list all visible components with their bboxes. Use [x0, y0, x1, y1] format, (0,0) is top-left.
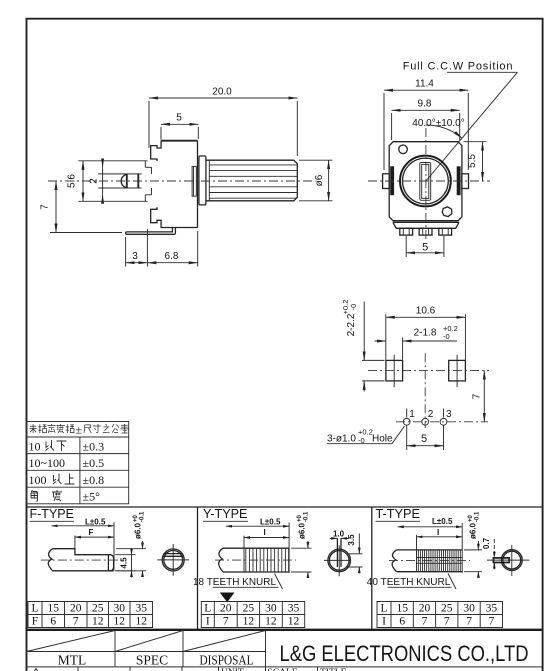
svg-text:7: 7 — [472, 393, 483, 399]
svg-text:-0.1: -0.1 — [475, 511, 481, 522]
svg-text:-0.1: -0.1 — [140, 511, 146, 522]
svg-text:I: I — [437, 528, 439, 537]
svg-text:2-2.2: 2-2.2 — [346, 313, 357, 336]
F dim dia6.0 — [116, 511, 146, 577]
pad centerline — [368, 370, 489, 372]
svg-text:10: 10 — [29, 440, 41, 454]
svg-text:15: 15 — [47, 603, 59, 615]
svg-text:12: 12 — [265, 616, 277, 628]
svg-text:+0: +0 — [133, 514, 139, 522]
svg-text:-0: -0 — [443, 332, 450, 341]
TITLE BLOCK — [27, 630, 543, 671]
right tab — [457, 166, 469, 195]
svg-text:10.6: 10.6 — [416, 306, 436, 317]
dim 5.6 — [67, 161, 84, 202]
svg-text:20.0: 20.0 — [212, 87, 232, 98]
svg-text:18 TEETH KNURL: 18 TEETH KNURL — [193, 576, 276, 588]
svg-text:5.5: 5.5 — [467, 154, 478, 168]
pad left — [386, 355, 403, 388]
svg-text:2: 2 — [428, 409, 434, 420]
svg-text:25: 25 — [243, 603, 255, 615]
dim 2 — [88, 159, 102, 204]
svg-text:20: 20 — [419, 603, 431, 615]
svg-text:3: 3 — [446, 409, 452, 420]
svg-text:5: 5 — [421, 433, 427, 445]
svg-text:ø6.0: ø6.0 — [134, 522, 143, 539]
dim 2-2.2 — [341, 300, 385, 392]
svg-text:25: 25 — [92, 603, 104, 615]
svg-text:I: I — [382, 616, 386, 628]
dim 5 pins bottom — [407, 426, 444, 451]
svg-text:2-1.8: 2-1.8 — [414, 328, 437, 339]
svg-text:35: 35 — [486, 603, 498, 615]
dim 7 — [472, 371, 485, 422]
Y dim I — [244, 528, 289, 549]
terminal strip — [78, 161, 151, 202]
Y table — [201, 602, 304, 628]
svg-text:12: 12 — [243, 616, 255, 628]
Y-TYPE title — [203, 507, 248, 521]
T end view — [487, 545, 530, 576]
T end dim 0.7 — [482, 537, 494, 569]
table grid — [27, 422, 129, 504]
left tab — [383, 166, 395, 195]
svg-text:7: 7 — [73, 616, 79, 628]
svg-text:±0.5: ±0.5 — [83, 456, 105, 470]
svg-text:Hole: Hole — [372, 434, 393, 445]
svg-text:7: 7 — [466, 616, 472, 628]
svg-text:12: 12 — [135, 616, 147, 628]
svg-text:±5°: ±5° — [83, 490, 101, 504]
svg-text:ø6.0: ø6.0 — [469, 522, 478, 539]
F table — [28, 602, 153, 628]
svg-text:1: 1 — [409, 409, 415, 420]
svg-text:20: 20 — [220, 603, 232, 615]
svg-text:±: ± — [76, 423, 83, 437]
svg-text:6: 6 — [50, 616, 56, 628]
diagonal MTL — [27, 631, 116, 652]
F dim L — [52, 517, 115, 571]
row 100 and above — [29, 473, 105, 487]
svg-text:7: 7 — [223, 616, 229, 628]
FOOTPRINT — [327, 300, 489, 450]
rotor rings — [400, 156, 451, 207]
svg-text:ø6: ø6 — [314, 174, 325, 186]
svg-text:3-ø1.0: 3-ø1.0 — [327, 434, 356, 445]
svg-text:L: L — [204, 603, 211, 615]
svg-text:7: 7 — [489, 616, 495, 628]
dim 2-1.8 — [375, 324, 458, 360]
svg-text:3: 3 — [132, 251, 138, 262]
centerlines front — [368, 180, 490, 182]
svg-text:L±0.5: L±0.5 — [260, 517, 281, 526]
svg-text:7: 7 — [40, 204, 51, 210]
svg-text:F: F — [89, 528, 94, 537]
svg-text:12: 12 — [113, 616, 125, 628]
svg-text:7: 7 — [444, 616, 450, 628]
SIDE VIEW — [40, 87, 333, 267]
F end view — [157, 544, 189, 576]
pad right — [449, 355, 466, 388]
svg-text:35: 35 — [288, 603, 300, 615]
F centerline — [41, 559, 122, 561]
svg-text:15: 15 — [396, 603, 408, 615]
T dim I — [417, 528, 463, 550]
pot body front — [389, 142, 462, 229]
Y end dim 1.0 — [330, 529, 349, 538]
svg-text:6.8: 6.8 — [165, 251, 179, 262]
row 10 and below — [29, 440, 105, 454]
dim 10.6 — [386, 306, 466, 360]
dim 40 deg — [412, 118, 464, 138]
F-TYPE title — [30, 507, 75, 521]
svg-text:9.8: 9.8 — [418, 99, 432, 110]
knurled shaft — [206, 160, 297, 201]
T knurl label — [367, 574, 456, 590]
T dim dia6.0 — [464, 511, 482, 578]
svg-text:DISPOSAL: DISPOSAL — [200, 652, 254, 667]
diagonal DISPOSAL — [183, 631, 266, 652]
label 3-hole — [327, 426, 405, 445]
svg-text:3.5: 3.5 — [347, 534, 356, 546]
dim 5 top — [161, 113, 198, 140]
centerline — [48, 180, 316, 182]
T dim L — [398, 517, 463, 573]
svg-text:L: L — [31, 603, 38, 615]
labels — [58, 652, 254, 667]
svg-text:±0.8: ±0.8 — [83, 473, 105, 487]
svg-text:+0: +0 — [297, 514, 303, 522]
T centerline — [389, 560, 470, 562]
svg-text:-0.1: -0.1 — [304, 511, 310, 522]
terminal slot — [121, 174, 138, 189]
row 10-100 — [29, 456, 105, 470]
svg-text:L±0.5: L±0.5 — [432, 517, 453, 526]
top separator — [27, 629, 543, 631]
mount hole bottom-right — [442, 207, 452, 217]
F dim F — [75, 528, 114, 549]
Y dim L — [226, 517, 289, 573]
svg-text:11.4: 11.4 — [415, 79, 434, 90]
bottom bracket — [126, 228, 176, 235]
svg-text:12: 12 — [92, 616, 104, 628]
svg-text:7: 7 — [422, 616, 428, 628]
svg-text:40.0°±10.0°: 40.0°±10.0° — [412, 118, 464, 129]
dim dia6 — [299, 160, 333, 201]
Y centerline — [215, 559, 296, 561]
dim 11.4 — [384, 79, 468, 170]
TOLERANCE TABLE — [27, 422, 129, 504]
svg-text:Y-TYPE: Y-TYPE — [203, 507, 248, 521]
Y end view — [324, 538, 351, 576]
svg-text:25: 25 — [441, 603, 453, 615]
svg-text:12: 12 — [288, 616, 300, 628]
svg-text:I: I — [264, 528, 266, 537]
Y knurl label — [193, 574, 283, 590]
svg-text:+0: +0 — [468, 514, 474, 522]
dim 9.8 — [392, 99, 460, 140]
dim 5.5 — [464, 142, 487, 181]
Y dim dia6.0 — [291, 511, 312, 577]
svg-text:0.7: 0.7 — [482, 537, 491, 549]
pin line — [396, 421, 488, 423]
pin holes 1 2 3 — [403, 409, 452, 426]
svg-text:I: I — [206, 616, 210, 628]
svg-text:T-TYPE: T-TYPE — [376, 507, 421, 521]
dim 20.0 — [149, 87, 297, 157]
svg-text:L±0.5: L±0.5 — [85, 517, 106, 526]
Y triangle marker — [220, 593, 235, 603]
svg-text:-0: -0 — [349, 304, 358, 311]
svg-text:10~100: 10~100 — [29, 456, 66, 470]
T table — [377, 602, 503, 628]
diagonal SPEC — [115, 631, 183, 652]
bottom row — [27, 667, 543, 671]
T shaft knurled — [392, 550, 462, 572]
mount hole top-left — [399, 145, 408, 154]
vertical centerline — [424, 353, 426, 428]
pins front — [400, 228, 452, 235]
svg-text:20: 20 — [70, 603, 82, 615]
svg-text:F-TYPE: F-TYPE — [30, 507, 75, 521]
svg-text:35: 35 — [135, 603, 147, 615]
svg-text:F: F — [32, 616, 38, 628]
TYPE SECTIONS — [27, 507, 543, 630]
svg-text:Full C.C.W Position: Full C.C.W Position — [403, 61, 514, 73]
row angle — [31, 490, 100, 504]
section dividers — [27, 507, 543, 630]
cell dividers — [27, 630, 266, 667]
Y end dim 3.5 — [346, 533, 363, 573]
rotor hub seen in body — [192, 166, 196, 196]
svg-text:30: 30 — [113, 603, 125, 615]
T-TYPE title — [376, 507, 421, 521]
svg-text:40 TEETH KNURL: 40 TEETH KNURL — [367, 576, 451, 588]
svg-text:SPEC: SPEC — [136, 652, 168, 667]
svg-text:30: 30 — [265, 603, 277, 615]
F dim 4.5 — [115, 548, 136, 578]
svg-text:±0.3: ±0.3 — [83, 440, 105, 454]
dim 5 pins — [406, 236, 444, 257]
bushing — [199, 156, 206, 205]
slot — [420, 163, 431, 201]
header CJK: tolerance of unspecified dims — [29, 423, 128, 437]
svg-text:1.0: 1.0 — [333, 529, 345, 538]
FRONT VIEW — [368, 61, 517, 258]
svg-text:ø6.0: ø6.0 — [298, 522, 307, 539]
svg-text:MTL: MTL — [58, 652, 87, 667]
svg-text:L: L — [380, 603, 387, 615]
svg-text:30: 30 — [463, 603, 475, 615]
svg-text:100: 100 — [29, 473, 47, 487]
svg-text:4.5: 4.5 — [120, 557, 129, 569]
F shaft — [48, 549, 113, 571]
Y shaft knurled — [219, 548, 289, 572]
svg-text:5: 5 — [422, 242, 428, 254]
svg-text:5: 5 — [176, 113, 182, 124]
label Full C.C.W Position — [403, 61, 518, 182]
body outline — [151, 140, 198, 227]
svg-text:6: 6 — [399, 616, 405, 628]
dim 7 — [40, 181, 123, 233]
dims 3 and 6.8 — [126, 229, 198, 267]
svg-text:L&G ELECTRONICS CO.,LTD: L&G ELECTRONICS CO.,LTD — [280, 641, 529, 666]
